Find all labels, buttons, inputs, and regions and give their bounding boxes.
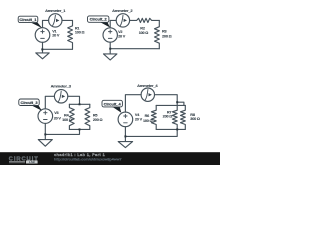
svg-text:200 Ω: 200 Ω [163, 115, 173, 119]
svg-text:R3: R3 [162, 29, 167, 33]
svg-text:100 Ω: 100 Ω [62, 118, 72, 122]
svg-text:100 Ω: 100 Ω [143, 119, 153, 123]
svg-text:http://circuitlab.com/c/dmuxcw: http://circuitlab.com/c/dmuxcw8p4ww7 [54, 157, 122, 161]
svg-text:200 Ω: 200 Ω [93, 118, 103, 122]
svg-text:20 V: 20 V [118, 35, 126, 39]
svg-text:R5: R5 [93, 113, 98, 117]
svg-text:Circuit_3: Circuit_3 [20, 100, 38, 105]
svg-text:20 V: 20 V [135, 118, 143, 122]
svg-text:100 Ω: 100 Ω [139, 31, 149, 35]
svg-text:Ammeter_4: Ammeter_4 [137, 83, 158, 88]
svg-text:LAB: LAB [29, 160, 35, 164]
svg-text:V2: V2 [118, 30, 122, 34]
svg-text:R2: R2 [140, 27, 145, 31]
svg-text:R6: R6 [145, 114, 150, 118]
svg-text:200 Ω: 200 Ω [162, 35, 172, 39]
svg-text:Circuit_1: Circuit_1 [19, 17, 37, 22]
svg-text:300 Ω: 300 Ω [190, 117, 200, 121]
svg-text:Circuit_4: Circuit_4 [104, 101, 122, 106]
svg-text:100 Ω: 100 Ω [75, 30, 85, 34]
svg-text:chadrik1 : Lab 1, Part 1: chadrik1 : Lab 1, Part 1 [54, 152, 105, 157]
svg-text:V3: V3 [54, 111, 58, 115]
svg-text:Circuit_2: Circuit_2 [90, 17, 108, 22]
svg-text:Ammeter_3: Ammeter_3 [51, 83, 72, 88]
svg-text:20 V: 20 V [54, 117, 62, 121]
svg-text:20 V: 20 V [52, 34, 60, 38]
svg-text:Ammeter_2: Ammeter_2 [112, 8, 133, 13]
svg-text:Ammeter_1: Ammeter_1 [45, 8, 66, 13]
